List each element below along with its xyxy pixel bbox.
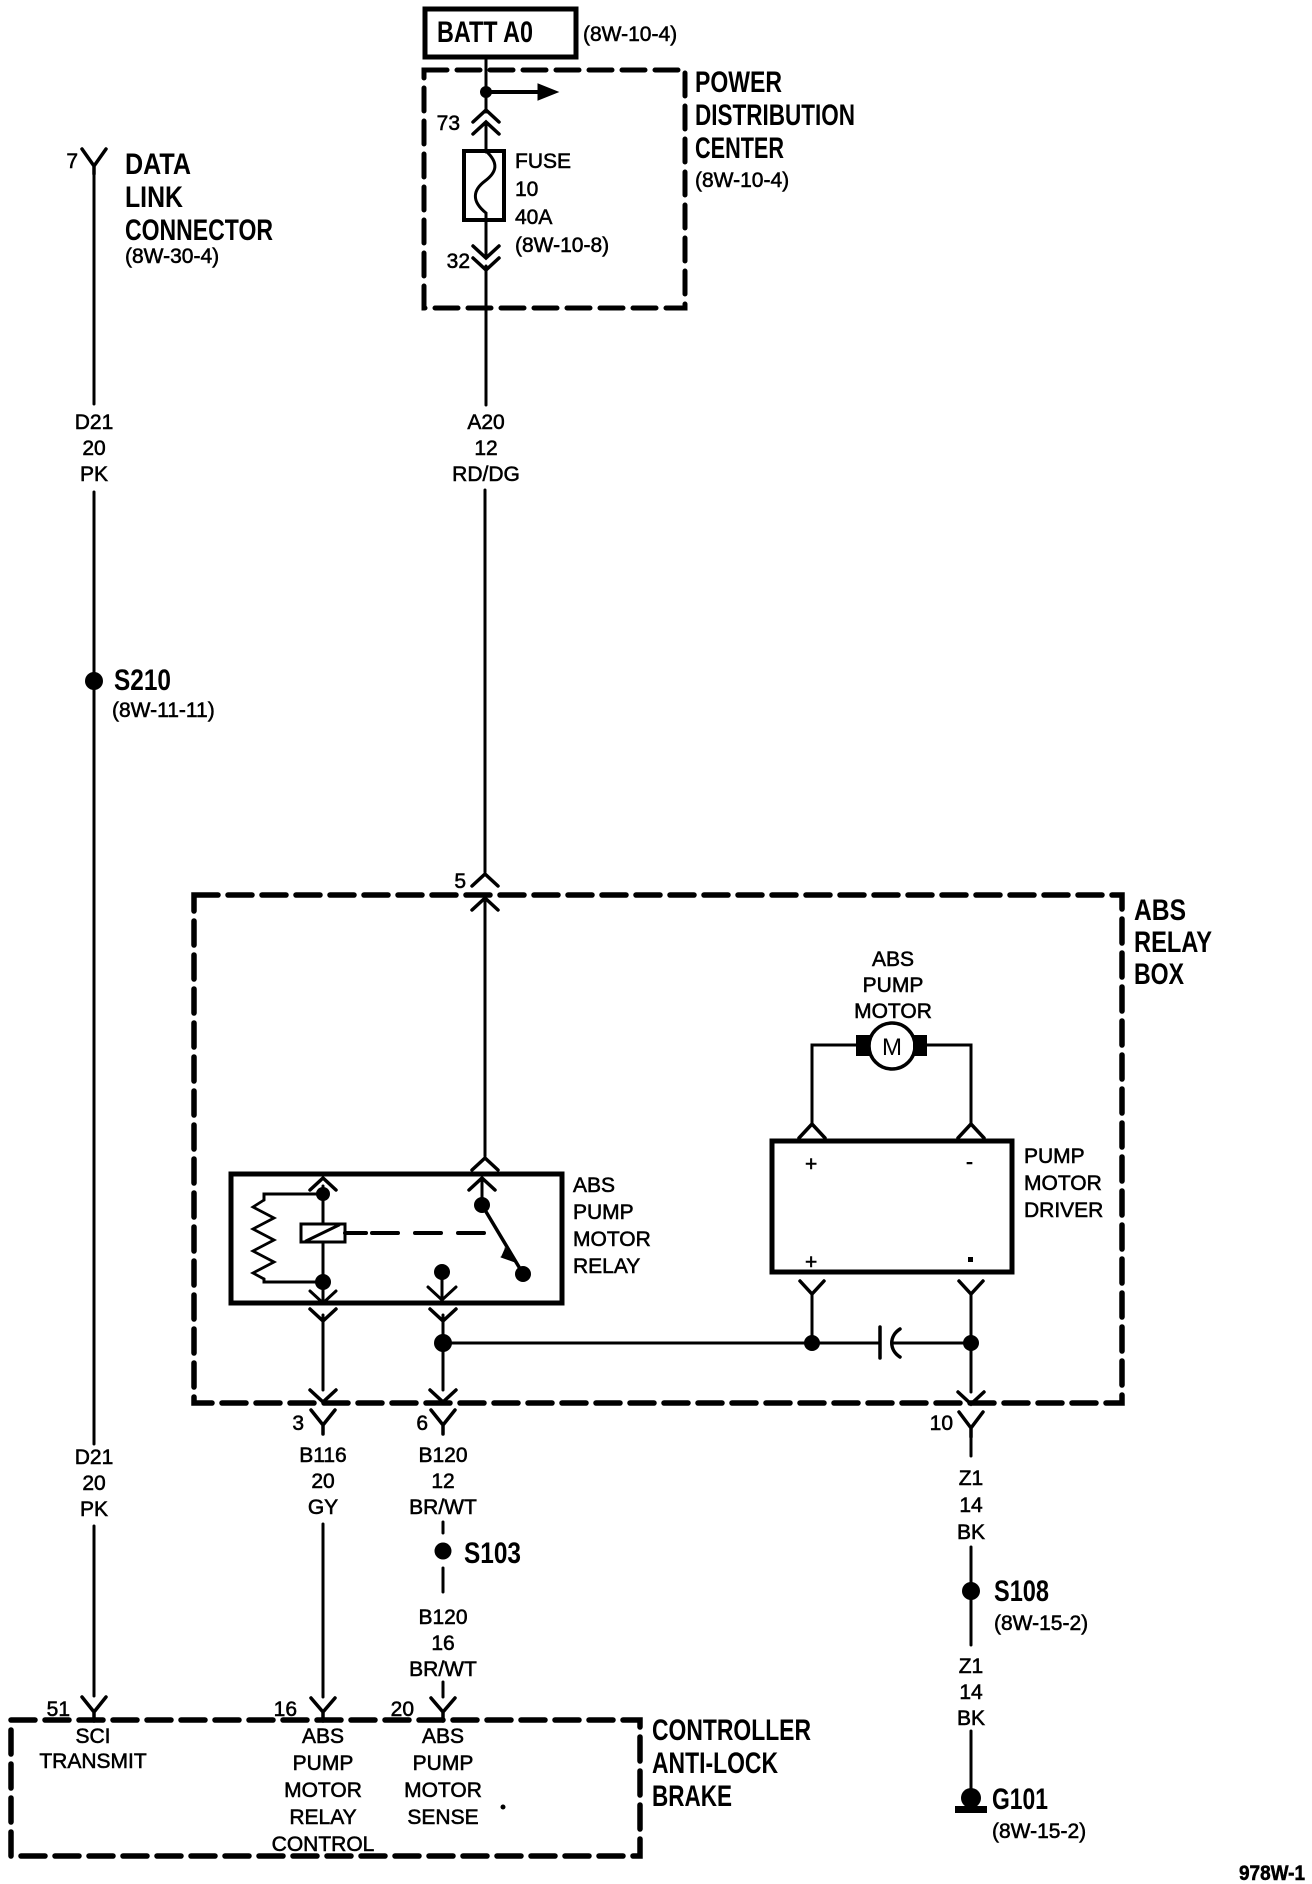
- svg-text:RELAY: RELAY: [1134, 926, 1212, 959]
- svg-text:MOTOR: MOTOR: [404, 1779, 482, 1802]
- wire label D21 20 PK: [75, 411, 114, 486]
- svg-text:A20: A20: [467, 411, 504, 434]
- svg-text:CONTROLLER: CONTROLLER: [652, 1714, 811, 1747]
- svg-text:10: 10: [930, 1412, 953, 1435]
- svg-text:BOX: BOX: [1134, 958, 1184, 991]
- label ABS PUMP MOTOR RELAY CONTROL: [272, 1725, 375, 1856]
- relay switch blade: [482, 1205, 522, 1272]
- connector 32 double chevron: [473, 246, 499, 270]
- wire bus B120 to capacitor: [443, 1342, 880, 1345]
- resistor bottom link: [264, 1279, 323, 1282]
- connector 20 Y symbol: [431, 1698, 455, 1721]
- label DATA LINK CONNECTOR (8W-30-4): [125, 148, 273, 268]
- svg-text:20: 20: [82, 1472, 105, 1495]
- svg-text:B120: B120: [418, 1444, 467, 1467]
- wire B120 dashed to splice S103: [442, 1522, 445, 1540]
- svg-text:POWER: POWER: [695, 66, 782, 99]
- connector chevron B116 at ABS border: [310, 1390, 336, 1402]
- label CONTROLLER ANTI-LOCK BRAKE: [652, 1714, 811, 1813]
- node B120 bus junction dot: [434, 1334, 452, 1352]
- label SCI TRANSMIT: [39, 1725, 147, 1773]
- svg-text:RELAY: RELAY: [289, 1806, 356, 1829]
- svg-text:978W-1: 978W-1: [1239, 1862, 1305, 1884]
- wire S108 down: [970, 1600, 973, 1645]
- svg-text:10: 10: [515, 178, 538, 201]
- resistor zigzag: [253, 1200, 274, 1279]
- connector 3 Y symbol: [311, 1410, 335, 1434]
- svg-text:BATT A0: BATT A0: [437, 16, 533, 49]
- node relay coil bottom junction dot: [315, 1274, 331, 1290]
- svg-text:B116: B116: [299, 1444, 347, 1467]
- svg-text:MOTOR: MOTOR: [284, 1779, 362, 1802]
- connector 73 double chevron: [473, 110, 499, 134]
- node driver right bus dot: [963, 1335, 979, 1351]
- svg-text:ABS: ABS: [1134, 894, 1186, 927]
- svg-text:12: 12: [474, 437, 497, 460]
- wire motor right to driver: [927, 1045, 971, 1124]
- svg-text:PK: PK: [80, 1498, 108, 1521]
- connector chevron above relay: [472, 1158, 498, 1170]
- wire B120 to controller: [442, 1682, 445, 1697]
- node relay switch blade end dot: [515, 1266, 531, 1282]
- wire B120 down inside ABS box: [442, 1343, 445, 1390]
- splice S103 dot: [435, 1543, 452, 1560]
- svg-text:(8W-15-2): (8W-15-2): [994, 1612, 1088, 1635]
- driver minus input chevron: [958, 1124, 984, 1138]
- splice S108 dot: [962, 1582, 980, 1600]
- wire relay switch feed: [481, 1178, 484, 1198]
- wire label D21 20 PK lower: [75, 1446, 114, 1521]
- svg-text:RELAY: RELAY: [573, 1255, 640, 1278]
- svg-text:TRANSMIT: TRANSMIT: [39, 1750, 147, 1773]
- svg-text:M: M: [882, 1034, 902, 1061]
- svg-text:(8W-11-11): (8W-11-11): [112, 699, 215, 722]
- wire 32 down out of PDC: [485, 266, 488, 405]
- svg-text:6: 6: [416, 1412, 428, 1435]
- ground G101 symbol: [955, 1788, 987, 1813]
- relay switch chevron inside top: [469, 1178, 495, 1190]
- svg-text:ABS: ABS: [872, 948, 914, 971]
- label ABS PUMP MOTOR SENSE: [404, 1725, 482, 1829]
- ABS pump motor relay box: [231, 1174, 562, 1303]
- svg-text:SCI: SCI: [75, 1725, 110, 1748]
- relay fixed contact lead arrow: [428, 1278, 456, 1300]
- svg-text:BRAKE: BRAKE: [652, 1780, 732, 1813]
- relay actuation dashed link: [345, 1231, 366, 1235]
- svg-text:(8W-30-4): (8W-30-4): [125, 245, 219, 268]
- node relay switch pivot dot: [474, 1197, 490, 1213]
- svg-text:ANTI-LOCK: ANTI-LOCK: [652, 1747, 778, 1780]
- svg-text:3: 3: [292, 1412, 304, 1435]
- label PUMP MOTOR DRIVER: [1024, 1145, 1103, 1222]
- svg-text:5: 5: [454, 870, 466, 893]
- driver plus input chevron: [799, 1124, 825, 1138]
- wire chevron to fuse: [485, 92, 488, 152]
- svg-text:RD/DG: RD/DG: [452, 463, 520, 486]
- wire label B120 16 BR/WT: [409, 1606, 477, 1681]
- connector 5 chevron below border: [472, 898, 498, 910]
- svg-text:GY: GY: [308, 1496, 338, 1519]
- connector 51 Y symbol: [82, 1697, 106, 1721]
- ABS relay box dashed border: [194, 895, 1122, 1403]
- wire Z1 to label: [970, 1437, 973, 1456]
- battery feed box BATT A0: [425, 9, 576, 57]
- power distribution center dashed box: [424, 70, 685, 308]
- driver terminal marks: [805, 1151, 973, 1274]
- svg-text:-: -: [966, 1151, 973, 1174]
- node driver left bus dot: [804, 1335, 820, 1351]
- wire label A20 12 RD/DG: [452, 411, 520, 486]
- node junction dot: [480, 86, 492, 98]
- svg-text:MOTOR: MOTOR: [854, 1000, 932, 1023]
- svg-text:ABS: ABS: [422, 1725, 464, 1748]
- wire Z1 to splice S108: [970, 1547, 973, 1582]
- wire B116 exit chevron below relay: [310, 1309, 336, 1321]
- svg-text:20: 20: [311, 1470, 334, 1493]
- svg-text:BR/WT: BR/WT: [409, 1658, 477, 1681]
- wire DLC down: [93, 174, 96, 404]
- svg-text:14: 14: [959, 1681, 983, 1704]
- wire D21 down to splice: [93, 492, 96, 672]
- label S210 (8W-11-11): [112, 664, 215, 722]
- wire B120 down to bus: [442, 1315, 445, 1343]
- svg-text:PUMP: PUMP: [413, 1752, 474, 1775]
- label ABS PUMP MOTOR: [854, 948, 932, 1023]
- svg-text:Z1: Z1: [959, 1655, 984, 1678]
- svg-text:BK: BK: [957, 1707, 985, 1730]
- connector 16 Y symbol: [311, 1698, 335, 1721]
- label ABS PUMP MOTOR RELAY: [573, 1174, 651, 1278]
- motor left terminal: [856, 1035, 870, 1056]
- svg-text:MOTOR: MOTOR: [1024, 1172, 1102, 1195]
- node relay fixed contact dot: [434, 1264, 450, 1280]
- svg-text:20: 20: [82, 437, 105, 460]
- driver right output chevron: [959, 1281, 983, 1294]
- wire D21 down to controller: [93, 1526, 96, 1696]
- svg-text:CONTROL: CONTROL: [272, 1833, 375, 1856]
- wire label Z1 14 BK lower: [957, 1655, 985, 1730]
- svg-text:PUMP: PUMP: [1024, 1145, 1085, 1168]
- svg-text:BR/WT: BR/WT: [409, 1496, 477, 1519]
- svg-text:S103: S103: [464, 1537, 521, 1570]
- relay coil bottom chevron to case: [310, 1282, 336, 1303]
- wire fuse to connector 32: [485, 220, 488, 256]
- svg-text:16: 16: [431, 1632, 454, 1655]
- svg-text:(8W-10-4): (8W-10-4): [583, 23, 677, 46]
- label ABS RELAY BOX: [1134, 894, 1212, 991]
- wire label B116 20 GY: [299, 1444, 347, 1519]
- wire label Z1 14 BK upper: [957, 1467, 985, 1544]
- svg-text:PUMP: PUMP: [573, 1201, 634, 1224]
- svg-text:PK: PK: [80, 463, 108, 486]
- relay coil symbol box with slash: [301, 1224, 345, 1242]
- svg-text:ABS: ABS: [302, 1725, 344, 1748]
- connector 5 chevron above border: [472, 874, 498, 886]
- svg-text:(8W-10-8): (8W-10-8): [515, 234, 609, 257]
- svg-text:PUMP: PUMP: [293, 1752, 354, 1775]
- wire B116 down to controller: [322, 1524, 325, 1697]
- wire label B120 12 BR/WT: [409, 1444, 477, 1519]
- svg-text:DISTRIBUTION: DISTRIBUTION: [695, 99, 855, 132]
- wire 5 down to relay: [484, 902, 487, 1156]
- relay coil vertical wire: [322, 1194, 325, 1282]
- svg-text:7: 7: [66, 150, 78, 173]
- wire arrow feed to right: [486, 84, 558, 100]
- resistor top link: [264, 1194, 323, 1200]
- svg-text:DRIVER: DRIVER: [1024, 1199, 1103, 1222]
- data link connector Y symbol: [82, 149, 106, 174]
- wire motor left to driver: [812, 1045, 856, 1124]
- svg-text:12: 12: [431, 1470, 454, 1493]
- svg-text:73: 73: [437, 112, 460, 135]
- wire Z1 down inside ABS box: [970, 1343, 973, 1392]
- label G101 (8W-15-2): [992, 1783, 1086, 1843]
- label POWER DISTRIBUTION CENTER: [695, 66, 855, 192]
- svg-text:CONNECTOR: CONNECTOR: [125, 214, 273, 247]
- wire S103 dashed down: [442, 1568, 445, 1592]
- svg-text:B120: B120: [418, 1606, 467, 1629]
- capacitor C1 plates: [880, 1327, 900, 1358]
- svg-text:DATA: DATA: [125, 148, 191, 181]
- wire A20 down to ABS relay box: [484, 490, 487, 872]
- svg-text:G101: G101: [992, 1783, 1048, 1816]
- svg-text:S210: S210: [114, 664, 171, 697]
- svg-text:CENTER: CENTER: [695, 132, 784, 165]
- svg-text:Z1: Z1: [959, 1467, 984, 1490]
- node artifact dot: [501, 1805, 506, 1810]
- svg-text:S108: S108: [994, 1575, 1049, 1608]
- wire driver left output to bus: [811, 1294, 814, 1343]
- label S108 (8W-15-2): [994, 1575, 1088, 1635]
- svg-text:(8W-10-4): (8W-10-4): [695, 169, 789, 192]
- svg-text:D21: D21: [75, 411, 114, 434]
- fuse label FUSE 10 40A (8W-10-8): [515, 150, 609, 257]
- controller anti-lock brake dashed box: [11, 1720, 640, 1856]
- svg-text:+: +: [805, 1153, 817, 1176]
- node relay coil top junction dot: [316, 1187, 330, 1201]
- svg-text:ABS: ABS: [573, 1174, 615, 1197]
- wire BATT A0 to junction: [485, 57, 488, 92]
- svg-text:D21: D21: [75, 1446, 114, 1469]
- svg-text:FUSE: FUSE: [515, 150, 571, 173]
- driver left output chevron: [800, 1281, 824, 1294]
- wire driver right output to bus: [970, 1294, 973, 1343]
- wire S210 down: [93, 690, 96, 1444]
- fuse 10 40A: [464, 151, 504, 220]
- wire capacitor to right bus dot: [893, 1342, 971, 1345]
- connector chevron Z1 at ABS border: [958, 1392, 984, 1404]
- wire Z1 to ground: [970, 1731, 973, 1790]
- svg-text:LINK: LINK: [125, 181, 183, 214]
- wire B120 exit chevron below relay: [430, 1309, 456, 1321]
- relay coil pin chevron inside top: [310, 1178, 336, 1190]
- svg-text:BK: BK: [957, 1521, 985, 1544]
- splice S210 dot: [85, 672, 103, 690]
- connector chevron B120 at ABS border: [430, 1390, 456, 1402]
- svg-text:+: +: [805, 1251, 817, 1274]
- motor M1 circle: [869, 1023, 915, 1069]
- svg-text:14: 14: [959, 1494, 983, 1517]
- svg-text:32: 32: [447, 250, 470, 273]
- svg-text:(8W-15-2): (8W-15-2): [992, 1820, 1086, 1843]
- relay coil top wire: [322, 1186, 325, 1193]
- svg-text:40A: 40A: [515, 206, 552, 229]
- wire B116 down inside ABS box: [322, 1315, 325, 1390]
- svg-text:PUMP: PUMP: [863, 974, 924, 997]
- svg-text:SENSE: SENSE: [407, 1806, 478, 1829]
- motor right terminal: [913, 1035, 927, 1056]
- connector 6 Y symbol: [431, 1410, 455, 1434]
- svg-text:MOTOR: MOTOR: [573, 1228, 651, 1251]
- connector 10 Y symbol: [959, 1412, 983, 1437]
- pump motor driver box: [772, 1141, 1012, 1272]
